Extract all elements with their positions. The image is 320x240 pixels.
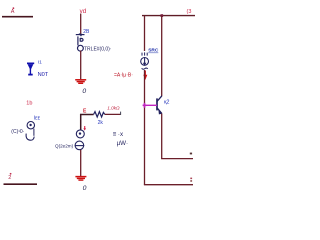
- junction top-right: [161, 14, 164, 17]
- svg-text:2k: 2k: [98, 120, 104, 126]
- base lead (magenta): [145, 104, 158, 106]
- svg-text:µW·: µW·: [117, 140, 128, 147]
- bottom-left stub label: [10, 173, 12, 175]
- svg-text:Q(2e2m): Q(2e2m): [55, 143, 74, 148]
- emitter wire down: [161, 114, 163, 159]
- wire left rail lower: [144, 70, 146, 185]
- top-right rail: [142, 15, 195, 17]
- transistor J1: [76, 35, 85, 52]
- pin label 2: [190, 153, 192, 155]
- svg-text:TRLE#(0,0)·: TRLE#(0,0)·: [84, 47, 112, 53]
- CCCS source F1: [141, 52, 149, 69]
- transistor Q2: [157, 96, 162, 114]
- svg-text:1.0kΩ: 1.0kΩ: [107, 106, 120, 111]
- bias current arrow (red): [144, 71, 146, 77]
- transistor Q center (circle style): [75, 130, 85, 150]
- wire left rail upper: [144, 16, 146, 51]
- svg-text:2: 2: [8, 175, 11, 181]
- svg-text:(C)¹0·: (C)¹0·: [11, 129, 24, 135]
- ground 0 (top branch): [75, 80, 86, 84]
- wire to ground (top branch): [80, 51, 82, 80]
- net label A: [13, 7, 15, 9]
- wire corner vertical: [80, 114, 82, 130]
- viewpoint symbol (goblet): [27, 63, 34, 76]
- svg-text:N0T: N0T: [38, 72, 49, 78]
- wire right rail (collector): [161, 16, 163, 96]
- svg-text:≡ ·x: ≡ ·x: [113, 131, 124, 138]
- floating source body: [26, 122, 34, 141]
- wire stub bottom-left: [4, 183, 38, 185]
- red current mark: [84, 126, 86, 130]
- CCCS arrow inside: [143, 63, 147, 66]
- arrow blob on J1: [79, 33, 83, 36]
- svg-text:1b: 1b: [26, 101, 32, 107]
- resistor right lead: [105, 113, 121, 115]
- pin label 1: [190, 178, 192, 180]
- svg-text:2B: 2B: [83, 29, 90, 35]
- svg-text:0: 0: [82, 88, 86, 95]
- wire vdd down: [80, 14, 82, 35]
- wire L bottom: [144, 184, 193, 186]
- svg-text:Iᴇᴇ: Iᴇᴇ: [34, 115, 41, 121]
- ground 0 (center): [75, 177, 86, 181]
- wire corner horizontal: [80, 114, 94, 116]
- svg-text:A: A: [11, 9, 15, 15]
- svg-text:0: 0: [83, 185, 87, 192]
- svg-text:(3: (3: [187, 9, 192, 15]
- wire to ground (center): [80, 150, 82, 176]
- svg-text:I1: I1: [38, 60, 42, 66]
- svg-text:қ2: қ2: [164, 100, 169, 106]
- wire stub A: [2, 16, 33, 18]
- svg-text:=A·Iµ·B·: =A·Iµ·B·: [114, 73, 133, 79]
- resistor R: [94, 112, 105, 117]
- wire L emitter: [161, 158, 193, 160]
- svg-text:SRC: SRC: [148, 48, 159, 54]
